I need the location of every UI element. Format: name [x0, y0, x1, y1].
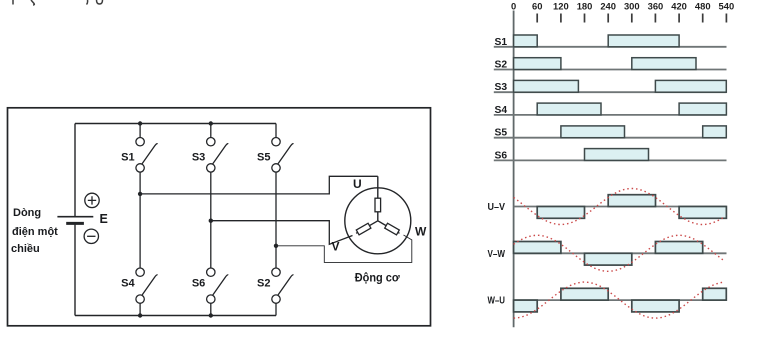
svg-text:U: U — [353, 177, 362, 191]
svg-text:540: 540 — [719, 0, 735, 11]
svg-text:480: 480 — [695, 0, 711, 11]
svg-text:Động cơ: Động cơ — [355, 271, 400, 285]
svg-text:U–V: U–V — [488, 202, 506, 213]
svg-text:420: 420 — [671, 0, 687, 11]
svg-text:S1: S1 — [121, 152, 134, 164]
svg-text:Dòng: Dòng — [13, 207, 41, 219]
svg-text:S4: S4 — [121, 278, 135, 290]
svg-text:S2: S2 — [257, 278, 270, 290]
svg-text:S4: S4 — [495, 105, 508, 116]
svg-text:chiều: chiều — [11, 243, 40, 255]
svg-text:60: 60 — [532, 0, 542, 11]
svg-text:S5: S5 — [495, 128, 508, 139]
svg-text:0: 0 — [511, 0, 516, 11]
svg-text:W: W — [415, 225, 427, 239]
svg-text:S3: S3 — [192, 152, 205, 164]
svg-text:S1: S1 — [495, 37, 508, 48]
svg-text:360: 360 — [648, 0, 664, 11]
svg-text:S3: S3 — [495, 82, 508, 93]
svg-text:điện một: điện một — [12, 226, 58, 238]
svg-text:300: 300 — [624, 0, 640, 11]
svg-text:V: V — [332, 240, 340, 254]
svg-text:120: 120 — [553, 0, 569, 11]
svg-text:S5: S5 — [257, 152, 270, 164]
svg-text:S2: S2 — [495, 60, 508, 71]
svg-text:W–U: W–U — [488, 296, 506, 307]
svg-text:240: 240 — [600, 0, 616, 11]
svg-text:E: E — [100, 212, 108, 226]
svg-text:V–W: V–W — [488, 249, 506, 260]
svg-text:S6: S6 — [495, 150, 508, 161]
svg-text:S6: S6 — [192, 278, 205, 290]
svg-text:180: 180 — [577, 0, 593, 11]
